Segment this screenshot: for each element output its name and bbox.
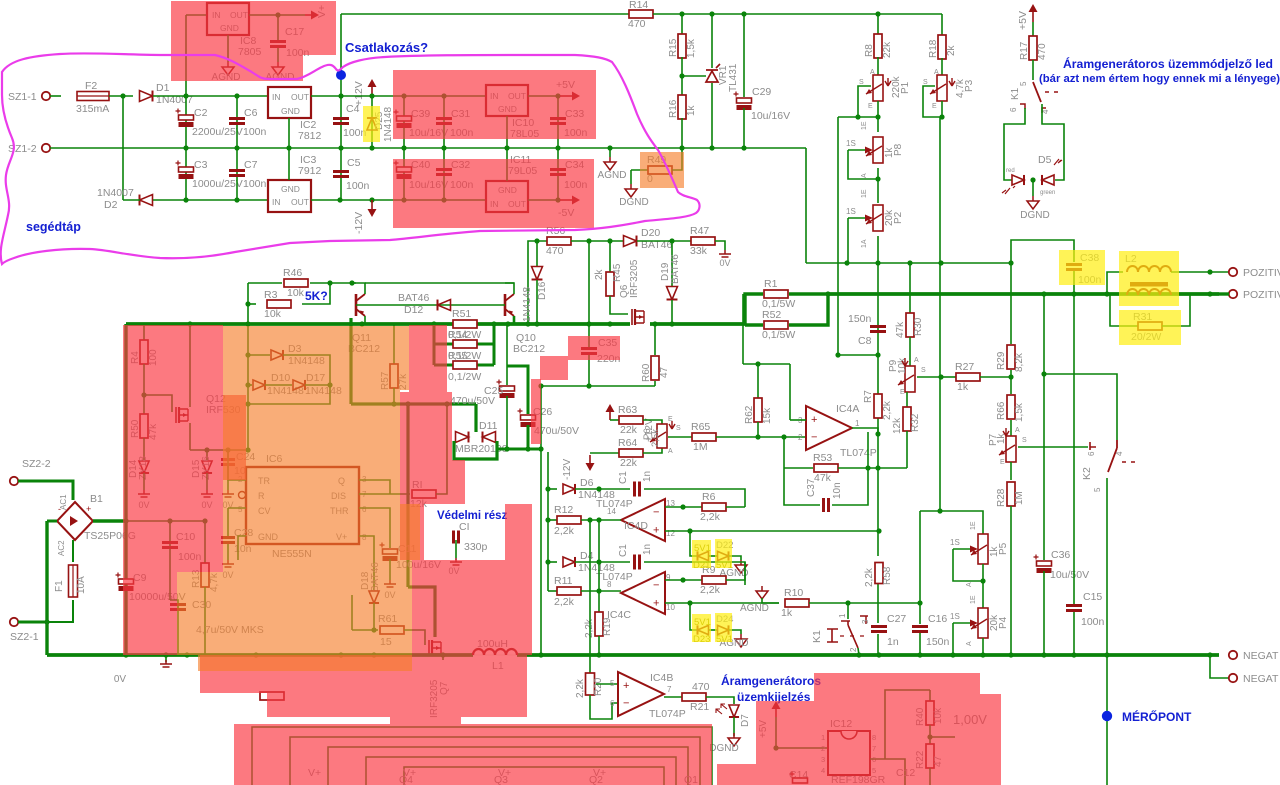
wire L2 to POZITIV1 [1171,271,1229,273]
svg-text:SZ2-2: SZ2-2 [22,458,51,470]
wire C17 branch [277,15,279,40]
power arrow +5V [560,95,573,97]
svg-text:AC2: AC2 [57,540,66,556]
svg-text:D11: D11 [479,420,498,432]
svg-text:A: A [914,357,919,364]
svg-text:47k: 47k [895,321,906,338]
wire C25 bottom [506,396,508,449]
wiper arrow P6 [669,421,675,429]
svg-text:0V: 0V [719,258,730,268]
wire RI right [436,404,447,494]
wire Q out net [359,480,390,494]
wire D19 bottom [671,300,673,324]
wire SZ2-1 to node [18,621,47,624]
svg-text:S: S [859,79,864,86]
wire +5V to R17 [1032,22,1034,37]
wire Q11 collector [352,283,365,294]
svg-text:-12V: -12V [562,459,573,480]
svg-text:470: 470 [1037,43,1048,60]
junction VR1 ref [679,73,684,78]
wire R18-P3 [941,58,943,77]
svg-text:B1: B1 [90,493,103,505]
svg-text:(bár azt nem értem hogy ennek: (bár azt nem értem hogy ennek mi a lénye… [1039,73,1280,85]
svg-text:1A: 1A [861,239,868,248]
wire R50 bottom [143,438,145,460]
wire thick mid [351,402,476,405]
wire L2 top feed [1107,272,1123,294]
wire R40 top [929,690,931,701]
wire C26 branch thick [507,366,528,414]
wire B1 AC2 to F1 [72,540,74,562]
svg-text:A: A [861,173,868,178]
wire P7 wiper to K2 [1018,446,1088,448]
wire R29-R66 [1010,370,1012,394]
svg-text:R52: R52 [762,309,781,321]
wire R15 top [681,14,683,36]
capacitor C37 [824,498,829,512]
resistor R47 [691,237,715,245]
wire C29 top [743,14,745,97]
wire R4 bottom [143,364,145,395]
highlight red under bus2 [267,693,527,717]
svg-text:TL074P: TL074P [649,708,686,720]
capacitor C11 [383,549,398,554]
junction P5 bottom [980,578,985,583]
resistor bank gate [260,692,284,700]
wire R3 row left [248,303,256,305]
svg-text:3: 3 [861,619,870,624]
power arrow -12V P6 [589,455,591,464]
resistor R64 [619,449,643,457]
highlight orange main block [223,326,420,572]
junction R11 out [596,588,601,593]
wire Q11 emitter [364,316,366,324]
wire thick to Q7 [408,587,435,637]
highlight yellow D23 [692,614,711,642]
junction thick mid [391,401,396,406]
wire R10 row [809,602,920,604]
pin bracket 6 K1tr [1020,104,1025,109]
svg-text:C5: C5 [347,157,361,169]
wire bank rail 4 [366,757,676,785]
wire R8-P1 [877,57,879,77]
svg-text:K2: K2 [1081,467,1093,480]
fuse F1 [69,565,78,597]
wire R13 bottom [204,587,206,655]
svg-text:D5: D5 [1038,154,1052,166]
junction P4 wiper bus [950,652,955,657]
highlight red bottom band [234,724,712,785]
regulator IC8 7805 [207,3,249,35]
svg-text:E: E [932,103,937,110]
wire C36 top [1043,294,1045,560]
transistor Q11 BC212 [355,294,358,316]
highlight red mid strip2 [452,460,465,504]
svg-text:1n: 1n [887,636,899,648]
wire C31 branch [443,96,445,148]
highlight red ref block low [814,694,1001,785]
svg-text:1E: 1E [861,121,868,130]
wire pin12 row [665,530,879,532]
highlight yellow R31 [1119,310,1181,345]
capacitor C17 [270,42,286,47]
capacitor C1b [635,555,640,570]
junctions x548 [545,486,550,491]
svg-text:F1: F1 [54,580,65,592]
wire AGND stub [609,148,611,157]
capacitor C1 [635,482,640,497]
ground 0V C28 [222,560,234,567]
svg-text:7: 7 [667,685,672,694]
wire IC4D out drop [589,520,591,673]
wire R21 to D7 [706,697,734,704]
svg-text:R27: R27 [955,361,974,373]
potentiometer P7 [1006,436,1016,462]
svg-text:-: - [58,504,61,514]
wire main bus left [126,322,434,326]
ground 0V C11 [384,580,396,587]
wire C38 feed [1011,240,1074,263]
capacitor C29 [737,98,752,103]
wire R27 right [980,376,1011,378]
junction P1 node [855,114,860,119]
highlight red C35 stair1 [568,336,620,360]
junction knot [504,446,509,451]
highlight red ref block2 [756,701,814,785]
wire R46 row left [248,282,282,284]
wire long drop x942 [939,117,941,511]
wire C1 left [599,488,630,490]
svg-text:5: 5 [610,679,615,688]
svg-text:R15: R15 [668,38,679,57]
svg-text:R1: R1 [764,278,778,290]
svg-text:C3: C3 [194,159,208,171]
svg-text:1: 1 [855,419,860,428]
wire D6 right [575,488,599,490]
svg-text:IC4A: IC4A [836,403,859,415]
ic IC12 REF198GR [828,731,870,775]
resistor R11 [557,587,581,595]
svg-text:TL074P: TL074P [840,447,877,459]
highlight orange below bus [198,655,412,671]
svg-text:C36: C36 [1051,549,1070,561]
svg-text:+: + [653,598,659,610]
inductor L1 100uH [473,649,517,655]
svg-text:1M: 1M [1014,491,1025,505]
junction pin13 [680,504,685,509]
wire C27 bottom [877,634,879,655]
junction row364 [755,361,760,366]
svg-text:C1: C1 [618,544,629,557]
highlight red Q7 connector [390,717,461,724]
svg-text:R10: R10 [784,587,803,599]
wire C10 branch [169,521,171,600]
svg-text:10u/50V: 10u/50V [1050,569,1089,581]
annotation magenta outline segedtap [1,53,700,264]
potentiometer P1 [873,75,883,101]
svg-text:IN: IN [272,92,281,102]
diode D2 1N4007 [140,195,153,206]
wire R6 right [726,506,745,508]
wire SZ2-2 to B1 [18,481,73,500]
potentiometer P8 [873,137,883,163]
junction pin10 [687,600,692,605]
junctions top rail [679,11,684,16]
wire bus up to R1 [745,294,763,324]
wire P4 bottom [982,638,984,655]
wire IC8 gnd [227,35,229,62]
wire C32 branch [443,148,445,200]
svg-text:C6: C6 [244,107,258,119]
wire C3 branch [185,148,187,200]
wire DIS net [359,493,410,495]
svg-text:S: S [923,79,928,86]
wire F1 bottom [47,600,73,622]
wire R30 to P9 [909,337,911,366]
wire bank rail 1 [252,727,712,785]
junction P3 node [939,114,944,119]
svg-text:2: 2 [849,647,858,652]
bridge rectifier B1 TS25P06G [57,502,93,540]
svg-text:1,5k: 1,5k [686,38,697,58]
resistor R22 [926,744,934,768]
ground 0V C24 [222,490,234,497]
power arrow +12V P6 [609,411,611,420]
wire minus rail [45,521,48,655]
wire VR1 ref [682,75,706,77]
svg-text:1S: 1S [950,538,960,547]
wire R49 right [672,149,682,170]
mosfet Q6 [631,309,633,325]
wire C15 bottom [1073,612,1075,655]
wire R3 up to R46 [302,283,330,304]
wire R28 bottom [1010,506,1012,655]
svg-text:OUT: OUT [291,197,309,207]
svg-text:E: E [1000,459,1005,466]
resistor R17 [1029,36,1037,60]
op-amp IC4C [621,572,665,614]
svg-text:AGND: AGND [740,603,769,614]
svg-text:0,1/2W: 0,1/2W [448,329,481,341]
led D7 [729,705,739,717]
wire IC2 gnd [288,118,290,148]
wire left drop x838 [837,117,839,355]
diode D18 BAT46 [369,591,379,603]
resistor R20 [586,673,595,695]
wire C24 gnd [227,466,229,490]
capacitor C14 [793,778,808,783]
wire IC12 out [870,759,905,785]
wire 1V tap [930,736,955,738]
wire D15 gnd [206,473,208,490]
svg-text:R20: R20 [593,677,604,696]
capacitor C16 [912,627,928,632]
wire P6 wiper to R65 [668,436,692,438]
wire top rail left [341,13,630,15]
wire D20 to R47 [637,240,692,242]
diode D25 [367,118,377,130]
ground DGND mid [625,184,637,197]
wire D10 left [248,384,252,386]
capacitor C39 [397,116,412,121]
potentiometer P4 [978,608,988,638]
wire +5V row [776,747,828,749]
svg-text:A: A [966,582,973,587]
svg-text:DGND: DGND [1020,210,1049,221]
resistor R12 [557,516,581,524]
wire NEGAT2 link [1210,655,1229,678]
wiper arrowhead P5 [970,546,978,553]
wire R56 feed [528,241,548,324]
wire VR1 top [711,14,713,68]
wire K2 pin5 down [1106,478,1108,655]
svg-text:C27: C27 [887,613,906,625]
svg-text:7912: 7912 [298,165,322,177]
diode D12 BAT46 [438,300,451,311]
led D5 green [1042,175,1054,185]
diode D3 1N4148 [271,350,283,360]
led D5 red [1012,175,1024,185]
resistor R1 [764,290,788,298]
potentiometer P6 [657,424,667,448]
wire R4 top [143,324,145,340]
wire R64 to P6 [643,448,662,453]
wire D6 left [548,488,557,490]
svg-text:C29: C29 [752,86,771,98]
svg-text:R28: R28 [996,488,1007,507]
svg-text:1E: 1E [970,521,977,530]
wire IC4A plus in [790,419,806,421]
wire R57 top [393,324,395,365]
wire R20 to plus [596,683,618,685]
wire D4 left [548,561,557,563]
wire C1b right [644,562,745,585]
capacitor C36 [1037,561,1052,566]
wire pin13 row [665,506,704,508]
svg-text:0,1/2W: 0,1/2W [448,350,481,362]
wire R17 to K1 [1032,60,1034,80]
node MEROPONT dot [1102,711,1112,721]
switch K1 top-right [1033,82,1041,102]
wire D4 right [575,561,599,563]
svg-text:R66: R66 [996,401,1007,420]
capacitor C30 [170,605,186,610]
svg-text:POZITIV: POZITIV [1243,267,1280,279]
svg-text:R14: R14 [629,0,648,11]
wire C37 left [784,468,820,505]
junctions SZ1-2 row [183,145,188,150]
wire C4 branch [340,96,342,148]
capacitor C26 [521,415,536,420]
svg-text:470u/50V: 470u/50V [450,395,495,407]
mosfet Q12 IRF530 [175,407,177,423]
wire C26 bottom thick [527,425,530,449]
highlight red dgnd strip [717,764,756,785]
svg-text:22k: 22k [620,424,638,436]
wire D3 right [283,355,330,385]
wire R46 row right [310,282,356,284]
highlight red mid strip [400,392,452,504]
capacitor C27 [871,627,887,632]
wire plus feed [789,364,791,420]
wire C34 branch [557,148,559,200]
svg-text:2,2k: 2,2k [575,678,586,698]
svg-text:−: − [623,698,629,710]
ground 0V bus [160,660,172,667]
fuse F2 [77,92,109,101]
wire D16 bottom [536,280,538,324]
resistor R13 [201,563,209,587]
wire C15 top [1073,294,1075,604]
wire bottom bus NEGATIV [47,653,473,657]
svg-text:P8: P8 [893,143,904,156]
svg-text:D20: D20 [641,227,660,239]
wire C11 gnd [389,559,391,580]
wire K1 drop [847,603,849,619]
wire R53 right [838,467,907,469]
wire C35 bottom [588,355,590,386]
wire R19 bottom [598,636,600,655]
wire C30 branch [170,600,178,655]
capacitor C34 [550,170,566,175]
ground AGND D22 [735,560,747,573]
wire D19 upper [671,241,673,286]
wire R30 top [909,263,911,314]
wire B1 plus to bus [93,519,126,522]
led arrows D7 [716,704,727,714]
junction K1 bus [856,652,861,657]
wire R60 bottom [654,381,656,386]
svg-text:IC4D: IC4D [624,520,648,532]
highlight red left of island [400,504,424,560]
wire P1 wiper loop [858,86,871,117]
svg-text:TL431: TL431 [728,63,739,92]
wire D21-D22 [709,555,717,557]
wire 0V stub bottom [165,655,167,662]
resistor R32 [903,407,911,431]
svg-text:P2: P2 [893,211,904,224]
wire C36 bottom [1043,571,1045,655]
svg-text:R29: R29 [996,351,1007,370]
wire P2 wiper loop [847,218,849,263]
svg-text:100n: 100n [346,180,370,192]
wire R22 bottom [929,768,931,785]
transistor Q10 BC212 [504,294,507,316]
resistor R15 [678,34,686,58]
wire R45 to Q6 gate [610,296,628,314]
wire R20 bottom loop [590,695,618,719]
wire C16 bottom [919,633,921,655]
wire bus to POZITIV2 [1219,292,1229,295]
wire Q12 drain [189,324,191,407]
wire R61 feed [351,595,353,630]
wire K2 pin4 up [1044,374,1117,440]
svg-text:+: + [811,414,817,426]
resistor R4 [140,340,148,364]
highlight red right of island [505,504,532,560]
svg-text:22k: 22k [882,41,893,58]
svg-text:IRF3205: IRF3205 [629,259,640,298]
wire bottom bus NEGATIV right [517,653,1219,657]
wire B1 minus [47,520,57,523]
wire D2 to IC3 [153,199,268,201]
svg-text:POZITIV: POZITIV [1243,289,1280,301]
wire P8-P2 [877,168,879,203]
svg-text:10u/16V: 10u/16V [751,110,790,122]
svg-text:R12: R12 [554,504,573,516]
junctions minus input [755,434,760,439]
power arrow +5V REF [775,708,777,717]
